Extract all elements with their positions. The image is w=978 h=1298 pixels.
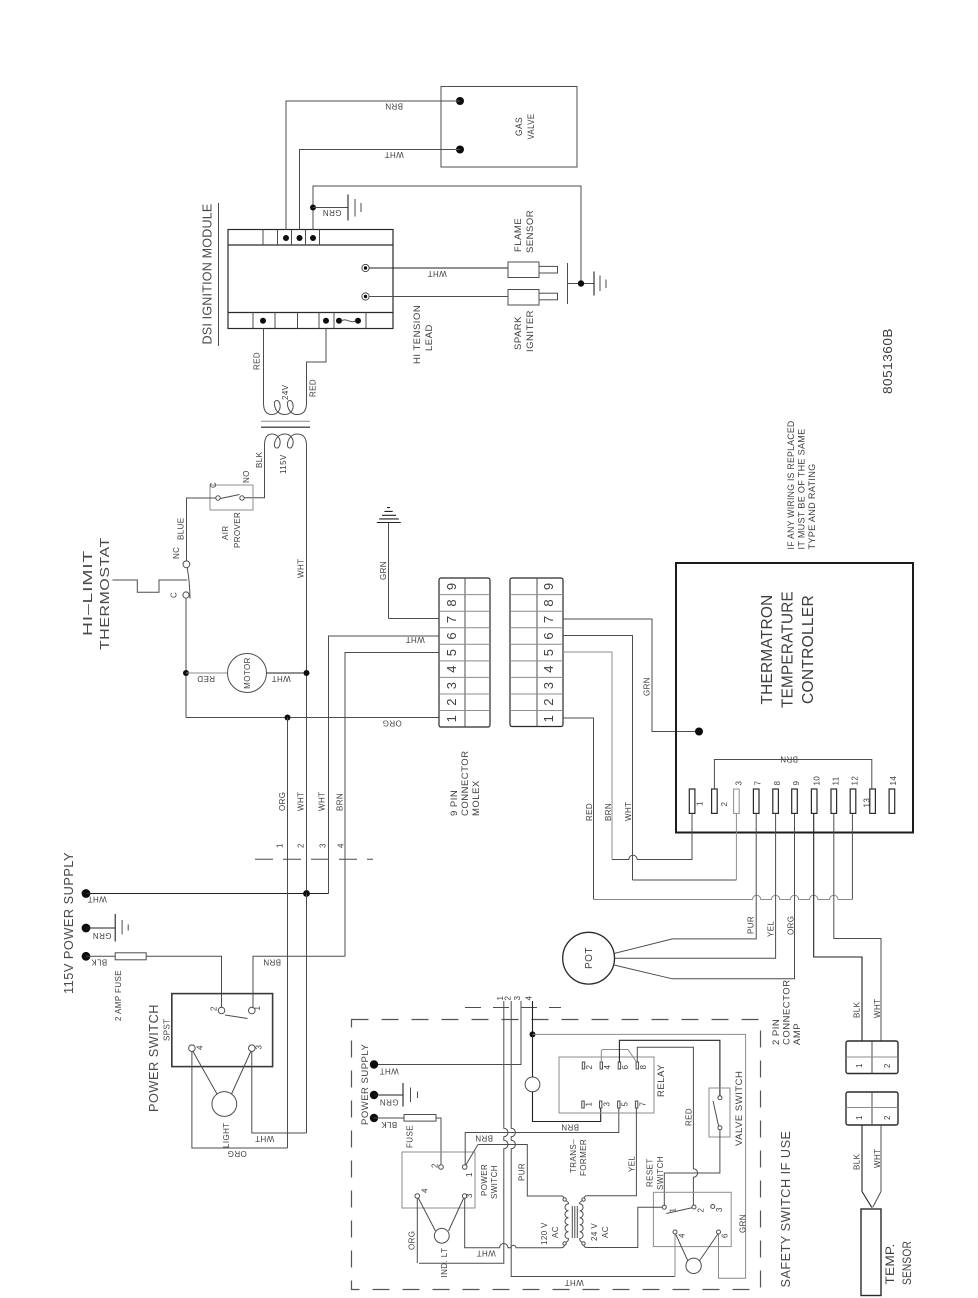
wire 4 right bus to reset 6 (533, 1034, 746, 1278)
safety terminal BLK (370, 1114, 378, 1122)
wire plate to ground (568, 283, 595, 285)
svg-text:RESET: RESET (646, 1158, 655, 1187)
valve switch blade (713, 1101, 719, 1126)
supply terminal WHT (82, 889, 91, 898)
svg-text:VALVE: VALVE (526, 114, 537, 140)
svg-text:NC: NC (172, 547, 181, 559)
relay pin 7 (635, 1101, 637, 1108)
wire BRN module to gas valve (286, 101, 460, 230)
svg-text:ORG: ORG (382, 719, 401, 728)
igniter mounting plate line (567, 263, 569, 304)
DSI module bottom terminal strip (228, 312, 393, 314)
120V winding lead bottom (563, 1242, 566, 1245)
svg-text:AMP: AMP (792, 1023, 803, 1045)
top strip dividers (263, 230, 320, 246)
24V winding lead top (582, 1198, 585, 1201)
relay pin 8 (636, 1062, 638, 1069)
svg-text:2: 2 (297, 843, 306, 848)
wire WHT molex B pin6 down (563, 636, 633, 881)
svg-text:2: 2 (431, 1163, 440, 1168)
svg-text:4: 4 (525, 996, 534, 1001)
IND LT circle (434, 1228, 449, 1243)
svg-text:6: 6 (444, 632, 459, 639)
wire 3 WHT to supply dot (374, 1001, 521, 1065)
svg-text:LIGHT: LIGHT (222, 1122, 231, 1148)
svg-text:4: 4 (541, 665, 556, 672)
transformer core (261, 420, 310, 422)
wire GRN module to chassis ground (313, 186, 581, 284)
svg-text:AC: AC (551, 1226, 560, 1238)
svg-text:BLK: BLK (853, 1153, 862, 1170)
svg-text:3: 3 (603, 1102, 612, 1107)
svg-text:SPST: SPST (163, 1019, 172, 1042)
relay jumper 4 to 8 (601, 1050, 636, 1063)
svg-text:2 AMP FUSE: 2 AMP FUSE (114, 970, 123, 1021)
svg-text:FLAME: FLAME (513, 218, 524, 252)
wire WHT flame sensor (369, 267, 508, 269)
svg-text:AIR: AIR (221, 525, 230, 540)
svg-text:MOLEX: MOLEX (471, 780, 482, 816)
wire WHT switch 3 down (252, 1052, 307, 1134)
svg-text:7: 7 (754, 781, 763, 786)
svg-text:WHT: WHT (379, 1067, 398, 1076)
harness cable dashed line (255, 858, 373, 860)
2 pin connector half B (846, 1092, 898, 1125)
svg-text:3: 3 (255, 1045, 264, 1050)
svg-text:WHT: WHT (87, 895, 106, 904)
DSI module top terminal strip (228, 244, 393, 246)
switch contact 2 (218, 1007, 225, 1014)
spark igniter body (508, 290, 539, 306)
svg-text:4: 4 (337, 843, 346, 848)
svg-text:GRN: GRN (93, 931, 112, 940)
svg-text:GAS: GAS (514, 117, 525, 136)
air prover C contact (216, 496, 220, 500)
DSI ignition module box (228, 230, 393, 329)
thermostat blade (187, 568, 190, 599)
safety power switch box (402, 1152, 475, 1208)
svg-text:3: 3 (735, 781, 744, 786)
reset contact 2 (692, 1205, 696, 1209)
wire BLUE thermostat NC to air prover C (187, 498, 217, 561)
svg-text:14: 14 (889, 776, 898, 786)
svg-text:HI–LIMIT: HI–LIMIT (81, 550, 95, 636)
switch2 contact 2 (439, 1165, 444, 1170)
svg-text:BRN: BRN (263, 958, 281, 967)
svg-text:ORG: ORG (787, 916, 796, 935)
svg-text:1: 1 (696, 801, 705, 806)
svg-text:2: 2 (883, 1063, 892, 1068)
svg-text:WHT: WHT (255, 1134, 274, 1143)
svg-text:3: 3 (319, 843, 328, 848)
svg-text:4: 4 (196, 1045, 205, 1050)
svg-text:8: 8 (541, 599, 556, 606)
svg-text:9: 9 (541, 583, 556, 590)
wire YEL relay 7 to 24V lead (584, 1109, 636, 1199)
svg-text:1: 1 (855, 1115, 864, 1120)
wire GRN supply to ground (86, 927, 115, 929)
svg-text:YEL: YEL (628, 1156, 637, 1172)
svg-text:2: 2 (720, 802, 729, 807)
reset contact 4 (673, 1230, 677, 1234)
svg-text:IGNITER: IGNITER (525, 310, 536, 352)
svg-text:BRN: BRN (604, 803, 613, 821)
svg-text:8051360B: 8051360B (880, 328, 895, 394)
svg-text:9: 9 (444, 583, 459, 590)
svg-text:THERMATRON: THERMATRON (759, 595, 776, 705)
air prover box (210, 485, 253, 510)
spark igniter pin (539, 293, 558, 300)
reset contact 6 (717, 1230, 721, 1234)
safety fuse body (404, 1115, 436, 1122)
wire RED module to transformer primary (263, 329, 265, 395)
safety terminal WHT (370, 1060, 378, 1068)
safety cable dashed line (465, 1007, 561, 1009)
wire BLK to temp sensor (862, 1125, 872, 1208)
svg-text:BRN: BRN (780, 755, 798, 764)
svg-text:THERMOSTAT: THERMOSTAT (98, 537, 112, 650)
svg-text:CONTROLLER: CONTROLLER (800, 595, 817, 704)
svg-text:ORG: ORG (227, 1149, 246, 1158)
GRN stub to ground (313, 207, 348, 209)
controller pin 3 (734, 789, 740, 813)
svg-text:6: 6 (721, 1233, 730, 1238)
wire BRN relay5 to switch2 1 (465, 1109, 619, 1165)
svg-text:BLUE: BLUE (177, 518, 186, 541)
molex connector half A (439, 578, 490, 727)
svg-text:8: 8 (639, 1065, 648, 1070)
temp sensor body (861, 1209, 881, 1296)
svg-text:4: 4 (421, 1188, 430, 1193)
svg-text:BRN: BRN (475, 1134, 493, 1143)
switch2 contact 1 (462, 1165, 467, 1170)
switch2 3 diagonal to IND LT (449, 1198, 464, 1231)
module output terminal (spark) (362, 293, 369, 300)
svg-text:BRN: BRN (385, 102, 403, 111)
pin3 riser (735, 813, 737, 880)
wire relay 6 to valve switch (619, 1040, 720, 1096)
switch contact 4 (189, 1045, 196, 1052)
switch2 contact 3 (462, 1194, 467, 1199)
supply terminal BLK (82, 952, 91, 961)
svg-text:DSI IGNITION MODULE: DSI IGNITION MODULE (200, 203, 215, 344)
gas valve terminal dots (456, 97, 464, 105)
air prover blade (221, 495, 240, 499)
svg-text:RED: RED (585, 803, 594, 821)
transformer 24V winding (264, 393, 307, 415)
wire WHT switch2 3 to 120V lead (465, 1198, 565, 1247)
molex B divider (536, 578, 538, 727)
svg-text:SWITCH: SWITCH (490, 1165, 499, 1199)
connector B divider horizontal (846, 1107, 898, 1109)
controller pin 13 (870, 789, 876, 813)
controller pin 2 (712, 789, 718, 813)
wire switch 4 diagonal to light (193, 1052, 217, 1095)
svg-text:3: 3 (715, 1207, 724, 1212)
svg-text:ORG: ORG (278, 792, 287, 811)
svg-text:CONNECTOR: CONNECTOR (782, 979, 793, 1045)
motor circle (228, 654, 267, 693)
svg-text:NO: NO (242, 470, 251, 483)
svg-text:FORMER: FORMER (579, 1139, 588, 1176)
hi-limit thermostat element (113, 580, 188, 592)
wire controller pin8 to POT (YEL) (615, 813, 776, 958)
svg-text:WHT: WHT (297, 792, 306, 811)
jumper wire between bottom dots (342, 320, 356, 322)
svg-text:5: 5 (621, 1102, 630, 1107)
earth ground above molex (388, 523, 390, 619)
2 pin connector half A (846, 1041, 898, 1074)
relay pin 6 (618, 1062, 620, 1069)
controller pin 8 (773, 789, 779, 813)
wire BRN pin2 to pin13 internal (714, 760, 871, 790)
wire controller pin1 to BRN with hop (612, 813, 692, 859)
svg-text:ORG: ORG (408, 1231, 417, 1250)
svg-text:1: 1 (585, 1102, 594, 1107)
connector A divider vertical (871, 1041, 873, 1074)
svg-text:24 V: 24 V (590, 1223, 599, 1241)
wire BLK to fuse (374, 1117, 404, 1119)
wire controller pin7 to POT (PUR) (614, 813, 757, 953)
bottom strip dividers (253, 313, 366, 329)
svg-text:3: 3 (513, 996, 522, 1001)
svg-text:BRN: BRN (336, 793, 345, 811)
svg-text:WHT: WHT (384, 150, 403, 159)
wire reset 1 to 24V lead bottom (584, 1207, 662, 1247)
relay pin 5 (618, 1101, 620, 1108)
svg-text:VALVE SWITCH: VALVE SWITCH (734, 1071, 745, 1146)
svg-text:2: 2 (210, 1006, 219, 1011)
switch2 blade (466, 1145, 478, 1165)
reset contact 3 (711, 1205, 715, 1209)
reset blade (666, 1208, 692, 1214)
svg-text:BLK: BLK (255, 451, 264, 468)
svg-text:TEMP.: TEMP. (883, 1244, 897, 1285)
wire valve switch to reset 1 (664, 1130, 720, 1205)
svg-text:RED: RED (253, 352, 262, 370)
svg-text:10: 10 (813, 776, 822, 786)
wire controller pin9 to POT (ORG) (614, 813, 795, 978)
controller pin 11 (831, 789, 837, 813)
connector A divider horizontal (846, 1056, 898, 1058)
molex A pin numbers (444, 583, 459, 723)
flame sensor body (508, 262, 539, 278)
reset 4 diagonal to lamp (676, 1234, 688, 1261)
svg-text:POWER: POWER (480, 1164, 489, 1196)
junction dot wire 4 (530, 1031, 536, 1037)
wire WHT supply bus (86, 893, 329, 895)
svg-text:9: 9 (792, 781, 801, 786)
svg-text:115V POWER SUPPLY: 115V POWER SUPPLY (62, 852, 76, 994)
safety switch dashed enclosure (352, 1020, 761, 1290)
svg-text:3: 3 (444, 682, 459, 689)
svg-text:GRN: GRN (380, 1098, 399, 1107)
svg-text:2: 2 (883, 1115, 892, 1120)
svg-text:SENSOR: SENSOR (900, 1241, 914, 1285)
reset 6 diagonal to lamp (699, 1234, 718, 1261)
junction dot WHT bus (303, 890, 310, 897)
wire WHT module to gas valve (300, 150, 461, 230)
svg-text:6: 6 (541, 632, 556, 639)
label THERMATRON TEMPERATURE CONTROLLER (759, 591, 817, 708)
svg-text:RED: RED (685, 1108, 694, 1126)
wire GRN to ground (374, 1094, 403, 1096)
svg-text:BLK: BLK (853, 1001, 862, 1018)
wire RED module to transformer (right) (307, 329, 327, 395)
wire WHT riser (306, 894, 308, 1134)
switch2 4 diagonal to IND LT (418, 1198, 435, 1231)
thermatron controller box (676, 563, 913, 833)
svg-text:WHT: WHT (405, 635, 424, 644)
svg-text:8: 8 (444, 599, 459, 606)
svg-text:GRN: GRN (379, 561, 388, 580)
controller pin 10 (811, 789, 817, 813)
svg-text:SENSOR: SENSOR (525, 210, 536, 253)
switch contact 1 (249, 1007, 256, 1014)
relay pin 4 (600, 1062, 602, 1069)
reset switch box (653, 1192, 731, 1246)
valve switch box (709, 1088, 730, 1137)
module top terminal dots (283, 235, 289, 241)
svg-text:6: 6 (621, 1065, 630, 1070)
120V winding (565, 1201, 569, 1242)
wire BRN molex pin5 down (345, 653, 439, 957)
svg-text:PUR: PUR (747, 916, 756, 934)
svg-text:FUSE: FUSE (406, 1125, 415, 1148)
relay pin 3 (600, 1101, 602, 1108)
svg-text:1: 1 (253, 1006, 262, 1011)
controller pin 12 (850, 789, 856, 813)
svg-text:GRN: GRN (643, 677, 652, 696)
svg-text:4: 4 (678, 1233, 687, 1238)
svg-text:2: 2 (697, 1208, 706, 1213)
wire BLK fuse to power switch 2 (146, 956, 221, 1007)
svg-text:1: 1 (855, 1063, 864, 1068)
svg-text:7: 7 (639, 1102, 648, 1107)
wire GRN molex B pin7 to controller (563, 619, 699, 732)
svg-text:CONNECTOR: CONNECTOR (460, 750, 471, 816)
svg-text:12: 12 (851, 776, 860, 786)
svg-text:LEAD: LEAD (424, 324, 435, 351)
wire BLK 115V winding to air prover NO (242, 455, 265, 498)
ground symbol supply (114, 914, 116, 942)
controller pin 14 (889, 789, 895, 813)
wire ORG horizontal to molex pin1 (186, 717, 439, 719)
thermostat C contact (183, 592, 189, 598)
svg-text:RED: RED (197, 674, 215, 683)
safety transformer core (572, 1206, 577, 1238)
svg-text:WHT: WHT (271, 674, 290, 683)
svg-text:IT MUST BE OF THE SAME: IT MUST BE OF THE SAME (797, 429, 807, 550)
svg-text:IF ANY WIRING IS REPLACED: IF ANY WIRING IS REPLACED (786, 420, 796, 549)
svg-text:PROVER: PROVER (233, 512, 242, 548)
controller pin 7 (753, 789, 759, 813)
svg-text:1: 1 (541, 715, 556, 722)
wire WHT reset 4 down (674, 1234, 676, 1277)
note IF ANY WIRING IS REPLACED (786, 420, 817, 549)
svg-text:1: 1 (465, 1172, 474, 1177)
svg-text:MOTOR: MOTOR (243, 657, 252, 689)
wire RED molex B pin1 down (563, 718, 594, 900)
svg-text:2: 2 (541, 699, 556, 706)
svg-text:GRN: GRN (739, 1214, 748, 1233)
title underline (218, 203, 220, 346)
wire PUR blade corner to 120V lead (478, 1145, 564, 1199)
svg-text:SPARK: SPARK (513, 316, 524, 350)
svg-text:5: 5 (541, 649, 556, 656)
svg-text:POWER SWITCH: POWER SWITCH (147, 1004, 161, 1112)
reset contact 1 (662, 1205, 666, 1209)
wire WHT to controller pin3 (633, 879, 737, 881)
svg-text:WHT: WHT (624, 802, 633, 821)
svg-text:115V: 115V (279, 454, 288, 474)
svg-text:1: 1 (444, 715, 459, 722)
svg-text:WHT: WHT (297, 559, 306, 578)
svg-text:PUR: PUR (518, 1163, 527, 1181)
svg-text:SAFETY SWITCH IF USE: SAFETY SWITCH IF USE (779, 1131, 793, 1288)
svg-text:WHT: WHT (873, 1149, 882, 1168)
wire BLK fuse to switch 2 (436, 1118, 441, 1165)
svg-text:POT: POT (584, 947, 595, 969)
svg-text:2: 2 (585, 1065, 594, 1070)
svg-text:4: 4 (444, 665, 459, 672)
wire BRN molex B pin5 down (563, 652, 612, 860)
svg-text:8: 8 (773, 781, 782, 786)
svg-text:TYPE AND RATING: TYPE AND RATING (807, 464, 817, 550)
svg-text:WHT: WHT (564, 1278, 583, 1287)
wire WHT controller pin11 to 2pin connector (834, 813, 881, 1041)
svg-text:WHT: WHT (476, 1249, 495, 1258)
svg-text:2: 2 (504, 996, 513, 1001)
module output terminal (flame) (362, 264, 369, 271)
wire controller pin12 down (851, 813, 853, 899)
svg-text:3: 3 (465, 1193, 474, 1198)
svg-text:GRN: GRN (323, 208, 342, 217)
wire switch 3 diagonal to light (231, 1052, 251, 1095)
switch blade (225, 1015, 248, 1019)
svg-text:7: 7 (541, 616, 556, 623)
svg-text:11: 11 (832, 776, 841, 785)
light bulb circle (212, 1092, 237, 1117)
svg-text:RED: RED (309, 379, 318, 397)
ground symbol near module (347, 195, 349, 221)
wire BRN connector circle to relay 3 (533, 1092, 601, 1122)
junction dot GRN in controller (695, 728, 703, 736)
valve switch top contact (718, 1096, 722, 1100)
wire WHT 115V winding down (306, 455, 308, 894)
wire WHT molex pin6 down (329, 636, 440, 894)
junction dot ORG (285, 715, 291, 721)
wire 2 WHT with hops (511, 1001, 675, 1277)
wire thermostat C down to motor node (185, 598, 187, 717)
wire BLK controller pin10 to 2pin connector (814, 813, 862, 1041)
wire ORG riser to molex line (287, 718, 289, 1149)
relay pin 1 (582, 1101, 584, 1108)
svg-text:BRN: BRN (561, 1123, 579, 1132)
junction dot GRN at plate (578, 280, 584, 286)
wire RED to controller pin12 with hops (594, 895, 853, 899)
svg-text:5: 5 (444, 649, 459, 656)
svg-text:1: 1 (276, 843, 285, 848)
wire 4 down to connector circle (532, 1034, 534, 1077)
svg-text:7: 7 (444, 616, 459, 623)
controller pin 9 (792, 789, 798, 813)
wire WHT to temp sensor (873, 1125, 881, 1208)
svg-text:C: C (209, 482, 218, 488)
gas valve box (441, 87, 577, 168)
switch2 contact 4 (415, 1194, 420, 1199)
safety terminal GRN (370, 1091, 378, 1099)
